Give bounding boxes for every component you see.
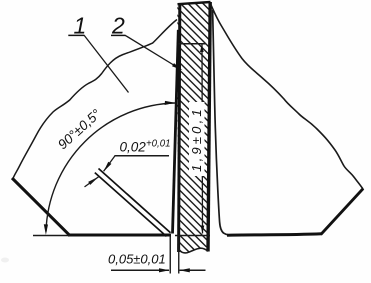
angle dimension arc 90 deg: [46, 103, 175, 232]
part 1: chamfer edge (thick): [12, 178, 70, 236]
dim 0,02 arrow upper (points down-left): [104, 162, 112, 172]
hatching of square blade 2: [160, 0, 371, 283]
dim 1,9 arrowhead up: [200, 44, 204, 52]
label 2 leader arrowhead: [172, 63, 183, 70]
baseline across blade (thin): [175, 235, 210, 237]
square blade 2: freehand broken bottom edge: [178, 248, 208, 253]
dim 0,02 lower arrow tail: [85, 177, 100, 187]
dim 1,9 arrowhead down: [201, 226, 205, 234]
faint scan smudge bottom left: [1, 258, 9, 263]
part 1: right wall against blade: [173, 30, 179, 234]
dim 0,02 leader shelf: [115, 155, 170, 157]
part 1: bottom edge (thick): [68, 234, 171, 237]
dim 0,05 extension line left: [169, 237, 171, 274]
baseline extension (thin, left of part): [33, 235, 70, 237]
arc arrowhead top (points right at blade edge): [165, 101, 176, 105]
svg-text:1,9±0,1: 1,9±0,1: [189, 106, 204, 172]
right block: bottom edge (thick): [227, 234, 322, 235]
dim 0,05 dimension line left segment: [111, 269, 169, 271]
dim 0,02 arrow lower (points up-right): [88, 177, 99, 185]
dim 1,9 top line across blade: [179, 43, 206, 45]
dim 0,05 dimension line right segment: [180, 269, 206, 271]
right block: pointed right edge (thick): [321, 189, 363, 235]
right block: freehand top slope break line: [211, 5, 363, 189]
label 2 underline: [111, 34, 126, 36]
label 2 leader: [125, 35, 181, 69]
gap line lower: [95, 173, 167, 237]
svg-text:0,05±0,01: 0,05±0,01: [108, 252, 166, 267]
dim 1,9 text knockout: [189, 102, 205, 176]
square blade 2: left edge: [179, 3, 180, 252]
dim 1,9 vertical dimension line: [201, 44, 204, 234]
dim 0,05 right arrowhead (points left): [179, 268, 190, 272]
part 1: freehand break line, top-left outline: [13, 20, 177, 179]
svg-text:1: 1: [74, 12, 87, 38]
svg-text:+0,01: +0,01: [146, 139, 171, 150]
dim 0,05 extension line right: [178, 237, 180, 274]
arc arrowhead bottom (points down): [44, 224, 48, 235]
label 1 leader: [84, 35, 128, 92]
dim 0,05 left arrowhead (points right): [159, 268, 170, 272]
square blade 2: right edge: [208, 2, 210, 252]
label 1 underline: [68, 34, 84, 36]
dim 0,02 leader to arrow: [104, 156, 115, 172]
gap line upper (0,02 gap): [99, 169, 171, 233]
square blade 2: top edge: [178, 2, 211, 4]
svg-text:2: 2: [111, 12, 125, 38]
svg-text:0,02: 0,02: [120, 140, 147, 155]
right block: left edge: [213, 10, 229, 235]
